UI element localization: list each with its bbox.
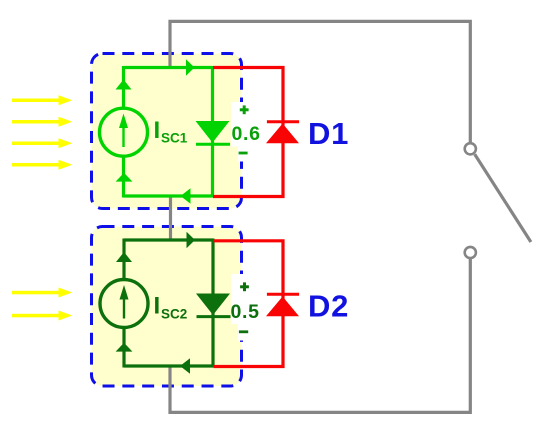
wire cell1 bottom — [124, 194, 213, 197]
label background minus cell1 — [238, 146, 253, 162]
svg-text:D1: D1 — [308, 116, 349, 151]
wire cell2 left branch upper — [122, 239, 125, 281]
arrowhead up on cell2 left branch upper — [116, 252, 132, 262]
light arrow 5 (into cell2) — [12, 288, 72, 298]
svg-text:SC2: SC2 — [161, 307, 187, 322]
arrowhead left on cell2 bottom wire — [180, 358, 190, 374]
red bypass loop D1 — [213, 68, 283, 197]
current source ISC1 inner arrow — [122, 125, 124, 147]
diode cell1 (green, pointing down) — [196, 121, 230, 143]
wire cell1 diode branch — [211, 66, 214, 198]
diode cell2 (dark green, pointing down) — [196, 294, 230, 316]
wire gray outer loop top: node between cell1 top and switch — [170, 21, 470, 142]
label background minus cell2 — [238, 324, 253, 341]
diode D2 (red, pointing up) — [266, 297, 299, 317]
diode D1 (red, pointing up) — [266, 124, 299, 144]
arrowhead up on cell1 left branch lower — [116, 173, 133, 182]
current source ISC1 circle — [100, 108, 148, 156]
red bypass loop D2 — [214, 241, 284, 367]
svg-text:D2: D2 — [308, 289, 349, 324]
light arrow 3 — [12, 138, 72, 148]
wire gray series connector between cell1 and cell2 — [169, 196, 172, 240]
light arrow 2 — [12, 117, 72, 127]
switch S1 blade (open) — [475, 154, 531, 242]
light arrow 1 — [12, 95, 72, 105]
wire cell2 diode branch — [211, 239, 214, 368]
cell 1 boundary (dashed blue rounded box, pale yellow fill) — [92, 54, 242, 209]
wire cell1 left branch upper — [122, 66, 125, 109]
wire cell1 left branch lower — [122, 156, 125, 198]
svg-text:0.5: 0.5 — [231, 301, 260, 323]
arrowhead right on cell2 top wire — [187, 232, 196, 249]
cell 2 boundary (dashed blue rounded box, pale yellow fill) — [92, 227, 242, 387]
wire cell2 top — [124, 238, 213, 241]
label plus cell2 — [240, 282, 249, 291]
wire cell2 left branch lower — [122, 327, 125, 368]
wire gray bottom loop — [170, 259, 470, 412]
arrowhead up on cell2 left branch lower — [116, 343, 133, 352]
label background 0.5 — [231, 274, 263, 324]
label background 0.6 — [231, 102, 263, 147]
light arrow 6 (into cell2) — [12, 311, 72, 321]
label plus cell1 — [240, 105, 249, 114]
label minus cell1 — [239, 152, 248, 155]
light arrows group 1 (sun into cell1) — [12, 95, 72, 320]
switch S1 bottom terminal — [465, 247, 476, 258]
label minus cell2 — [239, 330, 248, 333]
wire cell1 top — [124, 66, 213, 69]
current source ISC2 circle — [100, 280, 148, 328]
wire cell2 bottom — [124, 364, 213, 367]
svg-text:I: I — [154, 292, 161, 319]
light arrow 4 — [12, 160, 72, 170]
svg-text:0.6: 0.6 — [232, 123, 261, 145]
arrowhead up on cell1 left branch upper — [116, 80, 132, 90]
arrowhead right on cell1 top wire — [186, 59, 195, 76]
svg-text:SC1: SC1 — [161, 130, 188, 145]
arrowhead left on cell1 bottom wire — [181, 188, 191, 204]
svg-text:I: I — [154, 117, 161, 144]
switch S1 top terminal — [465, 143, 476, 154]
current source ISC2 inner arrow — [123, 297, 125, 319]
